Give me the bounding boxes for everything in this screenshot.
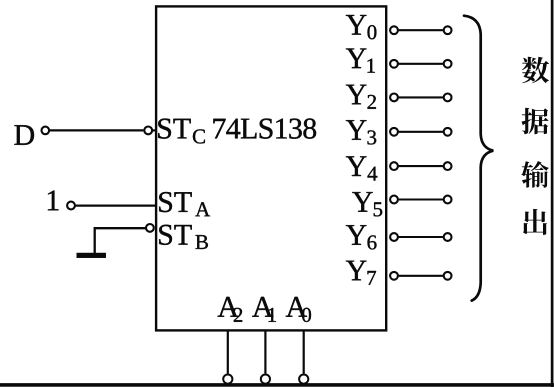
ground bbox=[77, 253, 106, 258]
terminal Y4 bbox=[444, 162, 452, 170]
bubble Y0 bbox=[390, 26, 398, 34]
pin label Y0 bbox=[346, 15, 377, 39]
label 74LS138 bbox=[213, 118, 316, 138]
pin label Y6 bbox=[346, 225, 377, 249]
wire Y6 bbox=[398, 236, 443, 238]
terminal Y0 bbox=[444, 26, 452, 34]
pin label A0 bbox=[286, 297, 311, 322]
bubble STB bbox=[146, 224, 154, 232]
bubble Y1 bbox=[390, 60, 398, 68]
terminal Y7 bbox=[444, 272, 452, 280]
terminal A0 bbox=[299, 375, 308, 384]
wire A0 bbox=[303, 330, 305, 373]
pin label STA bbox=[159, 192, 210, 216]
pin label A1 bbox=[252, 297, 276, 322]
label 数 (data output) bbox=[522, 57, 549, 83]
wire Y1 bbox=[398, 63, 443, 65]
terminal Y3 bbox=[444, 128, 452, 136]
bubble Y4 bbox=[390, 162, 398, 170]
frame bottom edge bbox=[0, 383, 554, 386]
pin label Y5 bbox=[352, 192, 382, 216]
IC U1 74LS138 body bbox=[156, 6, 386, 330]
wire STC stub bbox=[152, 129, 156, 131]
wire Y4 bbox=[398, 165, 443, 167]
terminal A1 bbox=[261, 375, 270, 384]
bubble Y6 bbox=[390, 233, 398, 241]
pin label Y3 bbox=[346, 120, 376, 144]
label 出 (data output) bbox=[523, 209, 547, 235]
terminal A2 bbox=[223, 375, 232, 384]
pin label STC bbox=[158, 119, 205, 144]
terminal Y6 bbox=[444, 233, 452, 241]
bubble Y7 bbox=[390, 272, 398, 280]
frame right edge bbox=[551, 0, 553, 387]
label 据 (data output) bbox=[522, 108, 549, 135]
label 输 (data output) bbox=[521, 161, 548, 188]
pin label Y4 bbox=[346, 156, 377, 180]
wire STB to ground bbox=[95, 228, 146, 253]
wire A2 bbox=[227, 330, 229, 373]
wire Y2 bbox=[398, 96, 443, 98]
terminal 1 bbox=[67, 202, 75, 210]
brace outputs bbox=[464, 16, 493, 301]
bubble STC bbox=[144, 126, 152, 134]
pin label STB bbox=[159, 225, 208, 249]
bubble Y5 bbox=[390, 196, 398, 204]
terminal Y5 bbox=[444, 196, 452, 204]
terminal Y1 bbox=[444, 60, 452, 68]
bubble Y3 bbox=[390, 128, 398, 136]
wire A1 bbox=[264, 330, 266, 373]
pin label Y7 bbox=[346, 261, 376, 285]
node logic 1 input bbox=[48, 191, 59, 211]
terminal Y2 bbox=[444, 94, 452, 102]
pin label Y2 bbox=[346, 85, 376, 109]
node D input bbox=[14, 125, 34, 145]
wire 1 to STA bbox=[75, 205, 155, 207]
wire Y5 bbox=[398, 198, 443, 200]
bubble Y2 bbox=[390, 94, 398, 102]
pin label Y1 bbox=[346, 49, 375, 73]
terminal D bbox=[42, 127, 50, 135]
wire Y3 bbox=[398, 131, 443, 133]
wire D to STC bbox=[50, 129, 144, 131]
wire Y7 bbox=[398, 275, 443, 277]
pin label A2 bbox=[218, 297, 243, 322]
wire Y0 bbox=[398, 29, 443, 31]
